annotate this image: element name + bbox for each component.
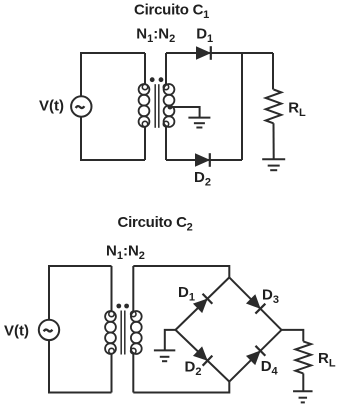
wire primary bottom stub C2 — [111, 354, 113, 393]
diode D1 — [197, 47, 211, 59]
resistor RL C2 — [296, 341, 312, 373]
transformer secondary coil C1 — [164, 84, 175, 95]
svg-text:D4: D4 — [261, 358, 279, 378]
diode D4 (bridge) — [247, 351, 260, 364]
diode D2 (bridge) — [194, 347, 207, 360]
source V(t) C2 — [39, 320, 59, 340]
ground bridge C2 — [154, 349, 175, 351]
resistor RL C1 — [266, 90, 282, 124]
wire primary top stub C1 — [144, 53, 146, 84]
wire bridge edge BR — [229, 330, 281, 382]
wire ground stub C2 — [165, 330, 176, 351]
svg-text:D1: D1 — [196, 26, 213, 46]
wire secondary top stub C2 — [132, 266, 134, 311]
transformer core C2 — [120, 311, 122, 355]
wire RL bottom C2 — [302, 373, 304, 391]
wire bridge edge TR — [229, 277, 281, 330]
transformer primary coil C1 — [139, 84, 150, 95]
svg-text:D2: D2 — [185, 359, 202, 379]
wire bridge edge TL — [176, 277, 230, 330]
wire secondary bottom C2 — [133, 382, 229, 393]
wire primary loop C2 — [49, 266, 112, 393]
svg-text:D3: D3 — [262, 287, 279, 307]
transformer dot secondary C2 — [124, 304, 129, 309]
wire secondary bottom C1 — [166, 159, 242, 161]
transformer dot secondary C1 — [159, 77, 164, 82]
wire RL bottom C1 — [273, 123, 275, 159]
wire primary top stub C2 — [111, 266, 113, 311]
ground RL C2 — [293, 390, 313, 392]
wire RL top C1 — [272, 53, 274, 90]
svg-text:V(t): V(t) — [4, 323, 29, 340]
svg-text:D2: D2 — [194, 169, 211, 189]
wire secondary top stub C1 — [165, 53, 167, 84]
svg-text:Circuito C1: Circuito C1 — [134, 2, 209, 22]
transformer dot primary C1 — [150, 77, 155, 82]
ground center tap C1 — [188, 117, 210, 119]
transformer primary coil C2 — [105, 311, 116, 322]
svg-text:N1:N2: N1:N2 — [106, 243, 145, 263]
wire bridge edge BL — [176, 330, 230, 382]
transformer secondary coil C2 — [131, 311, 142, 322]
wire secondary bottom stub C1 — [165, 127, 167, 160]
svg-text:V(t): V(t) — [39, 98, 64, 115]
svg-text:Circuito C2: Circuito C2 — [118, 214, 193, 234]
wire RL top C2 — [282, 330, 304, 342]
center tap C1 — [168, 105, 173, 110]
ground RL C1 — [262, 158, 285, 160]
wire secondary top C2 — [133, 266, 229, 277]
wire secondary top C1 — [166, 52, 273, 54]
wire secondary bottom stub C2 — [132, 354, 134, 393]
svg-text:N1:N2: N1:N2 — [136, 26, 175, 46]
wire primary loop C1 — [81, 53, 145, 160]
diode D2 — [196, 154, 210, 166]
diode D1 (bridge) — [194, 299, 207, 312]
svg-text:RL: RL — [288, 99, 306, 119]
source V(t) C1 — [71, 96, 91, 116]
transformer core C1 — [154, 84, 156, 128]
svg-text:D1: D1 — [178, 284, 195, 304]
wire middle vertical C1 — [241, 53, 243, 160]
wire primary bottom stub C1 — [144, 127, 146, 160]
transformer dot primary C2 — [116, 304, 121, 309]
diode D3 (bridge) — [247, 295, 260, 308]
svg-text:RL: RL — [318, 350, 336, 370]
